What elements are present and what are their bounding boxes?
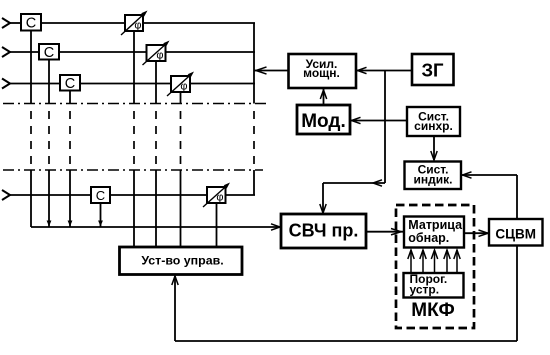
svg-text:МКФ: МКФ [411,300,454,321]
wire computer to indicator [461,174,517,176]
box power amplifier [289,54,357,88]
wire ZG to power amp [356,70,412,72]
wires threshold to matrix arrows [408,250,460,273]
wire feedback from computer [516,246,518,341]
wire row2 right [166,51,256,53]
svg-text:Мод.: Мод. [301,111,346,132]
wire row4 left [9,194,91,196]
wire PH4 column [216,203,218,247]
wire C4 column [100,203,102,227]
phase shifter PH1 [125,15,143,31]
node input arrow row2 [2,47,10,57]
wire sync to indicator [433,136,435,160]
wire row2 mid [59,51,147,53]
wire C2 column [48,60,50,104]
phase shifter PH3 [171,76,190,92]
svg-text:С: С [26,16,36,32]
phase shifter PH2 [147,45,166,61]
wire collector to receiver [31,226,279,228]
wire right vertical bus [253,23,255,104]
svg-text:СЦВМ: СЦВМ [495,226,536,241]
svg-text:Уст-во управ.: Уст-во управ. [141,253,223,267]
svg-text:ЗГ: ЗГ [421,59,444,80]
svg-text:С: С [96,188,105,203]
box MKF dashed [396,205,474,328]
svg-text:обнар.: обнар. [408,231,449,245]
wire row3 mid [80,83,171,85]
wire C1 column [30,31,32,104]
wire matrix to computer [464,232,489,234]
wire PH1 column [133,31,135,104]
wire C3 column [69,91,71,104]
box C1 [21,14,41,31]
dash-dot line upper [3,103,269,105]
box microwave receiver [281,214,366,248]
box C4 [91,187,110,203]
box C3 [60,75,80,91]
wire modulator to power amp [323,89,325,105]
dash-dot line lower [3,169,263,171]
wire row1 right [143,22,255,24]
wire row2 left [9,51,39,53]
box threshold device [404,273,464,298]
wire PH2 column [155,61,157,104]
node input arrow row4 [2,190,10,200]
wire row3 left [9,83,60,85]
box detection matrix [404,217,464,248]
box digital computer [489,219,543,246]
svg-text:индик.: индик. [414,172,453,186]
wire branch horizontal [323,182,385,184]
wire row4 mid [110,194,207,196]
wire PH3 column [180,92,182,104]
svg-text:синхр.: синхр. [414,119,453,133]
svg-text:С: С [65,76,75,92]
wire row3 right [190,83,255,85]
wire feed from power amp [254,70,289,72]
box modulator [297,105,350,134]
wire row1 left [9,22,21,24]
phase shifter PH4 [207,187,226,203]
wire ZG branch down [384,71,386,184]
wire row1 mid [41,22,125,24]
box control unit [120,247,243,275]
svg-text:Матрица: Матрица [408,218,463,232]
node input arrow row3 [2,79,10,89]
wire branch into receiver [322,183,324,213]
svg-text:устр.: устр. [410,282,440,296]
box C2 [39,44,59,60]
box ZG master oscillator [412,54,454,85]
box sync system [407,107,460,136]
node input arrow row1 [2,18,10,28]
wire row4 right [226,194,256,196]
wire receiver to matrix [366,231,403,233]
svg-text:мощн.: мощн. [303,66,340,80]
svg-text:С: С [44,45,54,61]
box indicator system [405,162,462,190]
svg-text:СВЧ пр.: СВЧ пр. [289,221,359,241]
wire sync to modulator [350,120,407,122]
